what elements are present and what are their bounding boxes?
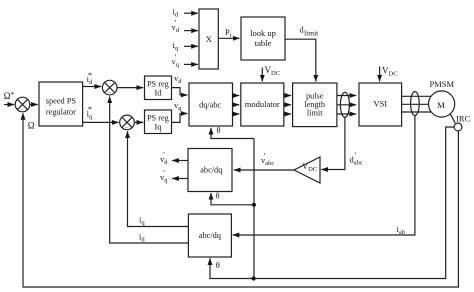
svg-text:dq/abc: dq/abc	[199, 101, 221, 110]
wire theta trunk vertical	[253, 139, 255, 279]
wire VSI to motor phase b	[402, 103, 429, 105]
svg-text:θ: θ	[216, 260, 220, 270]
wire V_DC into modulator	[261, 68, 263, 82]
svg-text:Iq: Iq	[154, 122, 161, 131]
wire modulator to pulse length limit phase b	[284, 104, 291, 106]
block PS reg Iq	[145, 110, 172, 134]
wire dq/abc to modulator phase b	[233, 104, 240, 106]
wire d junction to PS reg Id	[117, 87, 143, 89]
svg-text:limit: limit	[307, 108, 323, 117]
block VSI	[359, 83, 402, 126]
block abc/dq upper	[188, 149, 232, 192]
wire theta from IRC encoder	[210, 127, 454, 279]
wire v_q' output	[172, 178, 188, 180]
wire dq/abc to modulator phase a	[233, 95, 240, 97]
svg-text:vq': vq'	[172, 53, 180, 68]
wire i_d to X	[184, 12, 198, 14]
wire modulator to pulse length limit phase c	[284, 113, 291, 115]
svg-text:Id: Id	[154, 88, 162, 97]
svg-text:table: table	[255, 38, 272, 48]
svg-text:PS reg: PS reg	[147, 113, 169, 122]
wire v_q to dq/abc	[172, 114, 188, 123]
wire d_limit from look up table to pulse length limit	[285, 39, 316, 81]
wire d_abc' from sensor to divider	[321, 117, 345, 169]
svg-text:Pi: Pi	[225, 27, 232, 39]
svg-text:VDC: VDC	[265, 65, 281, 77]
block X (multiplier)	[199, 9, 218, 69]
svg-text:vd': vd'	[160, 151, 168, 166]
wire pulse length limit to VSI phase b	[337, 104, 356, 106]
svg-text:id: id	[173, 7, 179, 19]
wire VSI to motor phase c	[402, 111, 432, 113]
wire i_q to X	[184, 45, 198, 47]
wire motor to IRC encoder	[450, 114, 455, 124]
divider V_DC triangle	[294, 157, 320, 183]
wire junction to speed regulator	[30, 104, 38, 106]
svg-text:vabc': vabc'	[261, 152, 274, 167]
svg-text:vq': vq'	[160, 169, 168, 184]
encoder IRC	[454, 123, 462, 131]
wire V_DC into VSI	[379, 67, 381, 82]
wire VSI to motor phase a	[402, 95, 431, 97]
svg-text:id: id	[139, 232, 145, 244]
svg-text:−: −	[20, 107, 24, 113]
block dq/abc	[189, 83, 233, 126]
svg-text:PMSM: PMSM	[430, 79, 455, 89]
junction theta lower	[252, 276, 256, 280]
wire Omega* input	[4, 104, 14, 106]
junction theta upper	[252, 203, 256, 207]
svg-text:IRC: IRC	[456, 114, 471, 124]
wire theta branch to dq/abc	[211, 128, 254, 139]
wire modulator to pulse length limit phase a	[284, 95, 291, 97]
wire dq/abc to modulator phase c	[233, 113, 240, 115]
wire v_d' to X	[184, 30, 198, 32]
current sensor ellipse 2 (i_ab tap)	[411, 92, 420, 116]
block speed PS regulator	[39, 82, 83, 126]
block look up table	[241, 17, 285, 60]
block modulator	[241, 83, 284, 126]
wire v_d to dq/abc	[172, 88, 188, 95]
svg-text:iq*: iq*	[87, 104, 93, 120]
summing junction speed	[15, 97, 30, 112]
wire i_d feedback to d junction	[110, 96, 189, 243]
wire theta branch to upper abc/dq	[211, 193, 254, 205]
wire v_d' output	[172, 160, 188, 162]
wire q junction to PS reg Iq	[134, 121, 143, 123]
svg-text:Ω*: Ω*	[4, 90, 15, 101]
wire i_ab from sensor to lower abc/dq	[233, 115, 415, 235]
svg-text:vd': vd'	[172, 19, 180, 34]
wire Omega feedback from IRC	[23, 113, 458, 287]
svg-text:dabc': dabc'	[350, 151, 363, 166]
svg-text:regulator: regulator	[46, 108, 76, 117]
svg-text:abc/dq: abc/dq	[200, 166, 222, 175]
svg-text:iq: iq	[139, 215, 145, 227]
svg-text:VSI: VSI	[373, 99, 387, 109]
svg-text:VDC: VDC	[382, 66, 398, 78]
svg-text:vd: vd	[174, 73, 182, 85]
motor PMSM	[429, 91, 455, 117]
summing junction q	[120, 115, 135, 130]
block PS reg Id	[145, 76, 172, 100]
wire i_q feedback to q junction	[128, 131, 189, 226]
svg-text:iq: iq	[173, 40, 179, 52]
wire v_q' to X	[184, 63, 198, 65]
summing junction d	[102, 80, 117, 95]
wire pulse length limit to VSI phase a	[337, 95, 356, 97]
svg-text:abc/dq: abc/dq	[199, 231, 221, 240]
wire pulse length limit to VSI phase c	[337, 113, 356, 115]
svg-text:−: −	[125, 125, 129, 131]
block abc/dq lower	[188, 214, 231, 257]
svg-text:vq: vq	[174, 100, 182, 112]
wire P_i from X to look up table	[218, 37, 239, 39]
svg-text:speed PS: speed PS	[46, 97, 77, 106]
svg-text:id*: id*	[87, 70, 93, 86]
wire v_abc' divider to upper abc/dq	[234, 169, 294, 171]
wire i_d* to d junction	[83, 86, 102, 88]
svg-text:X: X	[206, 34, 212, 44]
svg-text:PS reg: PS reg	[147, 79, 169, 88]
svg-text:iab: iab	[397, 224, 406, 236]
wire i_q* to q junction	[83, 121, 119, 123]
current sensor ellipse 1 (duty tap)	[340, 92, 349, 117]
block pulse length limit	[293, 83, 337, 127]
svg-text:dlimit: dlimit	[300, 26, 320, 38]
svg-text:M: M	[437, 100, 445, 110]
svg-text:θ: θ	[217, 125, 221, 135]
svg-text:modulator: modulator	[245, 99, 280, 109]
svg-text:look up: look up	[250, 28, 276, 38]
svg-text:Ω: Ω	[28, 120, 35, 130]
